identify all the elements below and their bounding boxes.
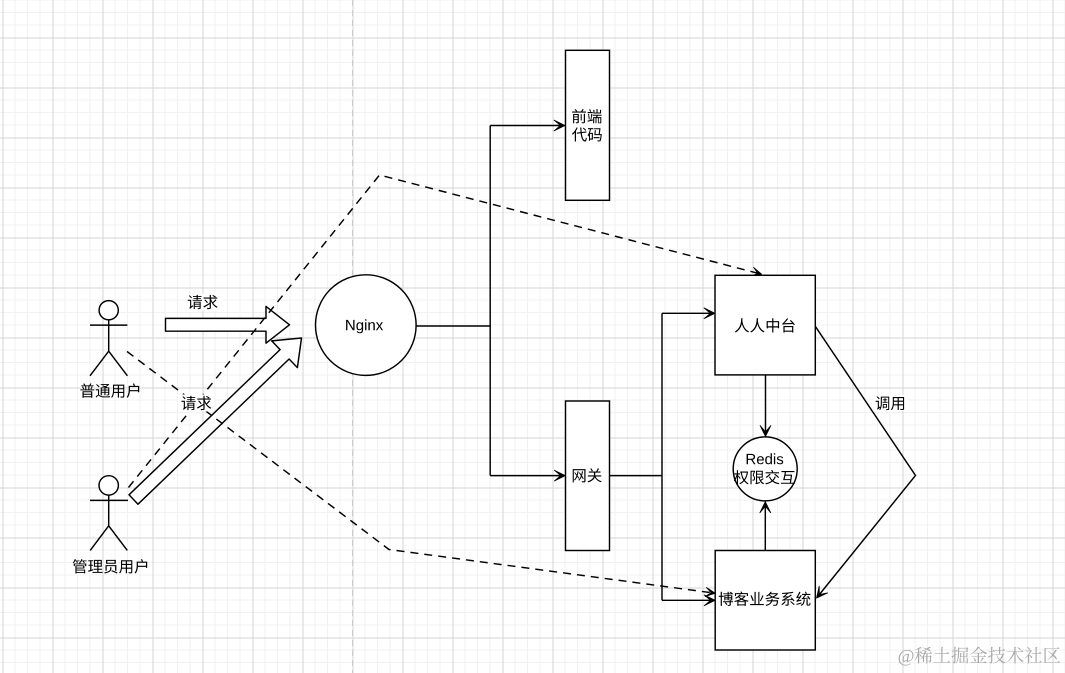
page boundary dashed guide line bbox=[352, 0, 354, 673]
wire junction vertical x=490 bbox=[489, 126, 491, 476]
text 前端 line1 bbox=[572, 109, 602, 123]
label 调用 bbox=[873, 395, 907, 411]
label 普通用户 bbox=[80, 383, 139, 397]
arrow 人人中台 to Redis bbox=[765, 375, 767, 432]
text 网关 bbox=[573, 468, 602, 482]
arrow into 人人中台 bbox=[662, 312, 710, 314]
box 网关 bbox=[566, 401, 610, 551]
watermark @稀土掘金技术社区 bbox=[899, 647, 1060, 666]
box 前端代码 bbox=[566, 50, 610, 200]
label 管理员用户 bbox=[73, 559, 147, 573]
label 请求 (diagonal) bbox=[178, 395, 214, 412]
arrow into 前端代码 bbox=[490, 125, 560, 127]
wire junction vertical x=662 bbox=[661, 313, 663, 600]
text 博客业务系统 bbox=[719, 592, 811, 606]
arrow 博客业务系统 to Redis bbox=[764, 506, 766, 550]
wire 网关 to junction bbox=[610, 475, 662, 477]
box 人人中台 bbox=[715, 275, 815, 375]
label 请求 (top) bbox=[185, 294, 221, 311]
dashed line normal user to 博客业务系统 bbox=[127, 352, 711, 593]
Redis circle bbox=[733, 437, 797, 501]
Nginx circle bbox=[316, 275, 417, 376]
text 代码 line2 bbox=[572, 127, 602, 141]
text Redis bbox=[747, 453, 784, 464]
actor 普通用户 (stick figure) bbox=[99, 301, 118, 320]
wire 调用 (人人中台 to 博客业务系统) bbox=[815, 326, 915, 594]
arrow into 博客业务系统 bbox=[662, 599, 711, 601]
text 人人中台 bbox=[735, 318, 795, 332]
block arrow 请求 (normal user to Nginx) bbox=[166, 306, 290, 343]
arrow into 网关 bbox=[490, 475, 560, 477]
text 权限交互 bbox=[734, 470, 795, 485]
dashed line admin user to 人人中台 bbox=[129, 175, 758, 488]
actor 管理员用户 (stick figure) bbox=[99, 476, 118, 495]
box 博客业务系统 bbox=[715, 551, 815, 651]
text Nginx bbox=[346, 319, 383, 333]
block arrow 请求 (admin user to Nginx, diagonal) bbox=[129, 338, 302, 504]
wire Nginx to junction bbox=[416, 325, 490, 327]
